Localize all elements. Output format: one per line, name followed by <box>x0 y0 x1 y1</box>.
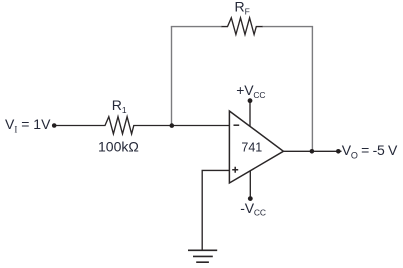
ground <box>188 250 217 262</box>
svg-text:-VCC: -VCC <box>240 200 266 218</box>
wire +Vcc stub <box>249 101 251 127</box>
svg-text:100kΩ: 100kΩ <box>98 138 139 154</box>
node Vo terminal <box>336 149 341 154</box>
node +Vcc terminal <box>248 98 253 103</box>
svg-text:741: 741 <box>241 141 262 155</box>
wire feedback top horizontal left segment (gray) <box>171 26 222 28</box>
node -Vcc terminal <box>248 196 253 201</box>
node junction inverting input <box>170 123 175 128</box>
wire feedback top horizontal right segment (gray) <box>262 26 313 28</box>
svg-text:VI = 1V: VI = 1V <box>5 116 51 135</box>
op-amp U1 741 triangle <box>229 111 283 183</box>
node output junction <box>310 149 315 154</box>
wire input horizontal <box>54 125 101 127</box>
svg-text:+VCC: +VCC <box>236 82 265 100</box>
wire output <box>283 150 341 152</box>
resistor RF <box>222 18 263 35</box>
op-amp minus input sign <box>234 124 240 126</box>
wire feedback right vertical (gray) <box>311 27 313 150</box>
resistor R1 <box>100 117 140 134</box>
wire -Vcc stub <box>249 171 251 199</box>
node Vi input terminal <box>52 123 57 128</box>
op-amp plus input sign <box>232 167 238 173</box>
wire R1 to inverting input <box>140 125 229 127</box>
wire feedback left vertical (gray) <box>171 27 173 124</box>
wire noninverting input to ground <box>202 170 229 250</box>
svg-text:VO = -5 V: VO = -5 V <box>342 142 398 161</box>
svg-text:R1: R1 <box>112 97 127 115</box>
svg-text:RF: RF <box>235 0 250 17</box>
